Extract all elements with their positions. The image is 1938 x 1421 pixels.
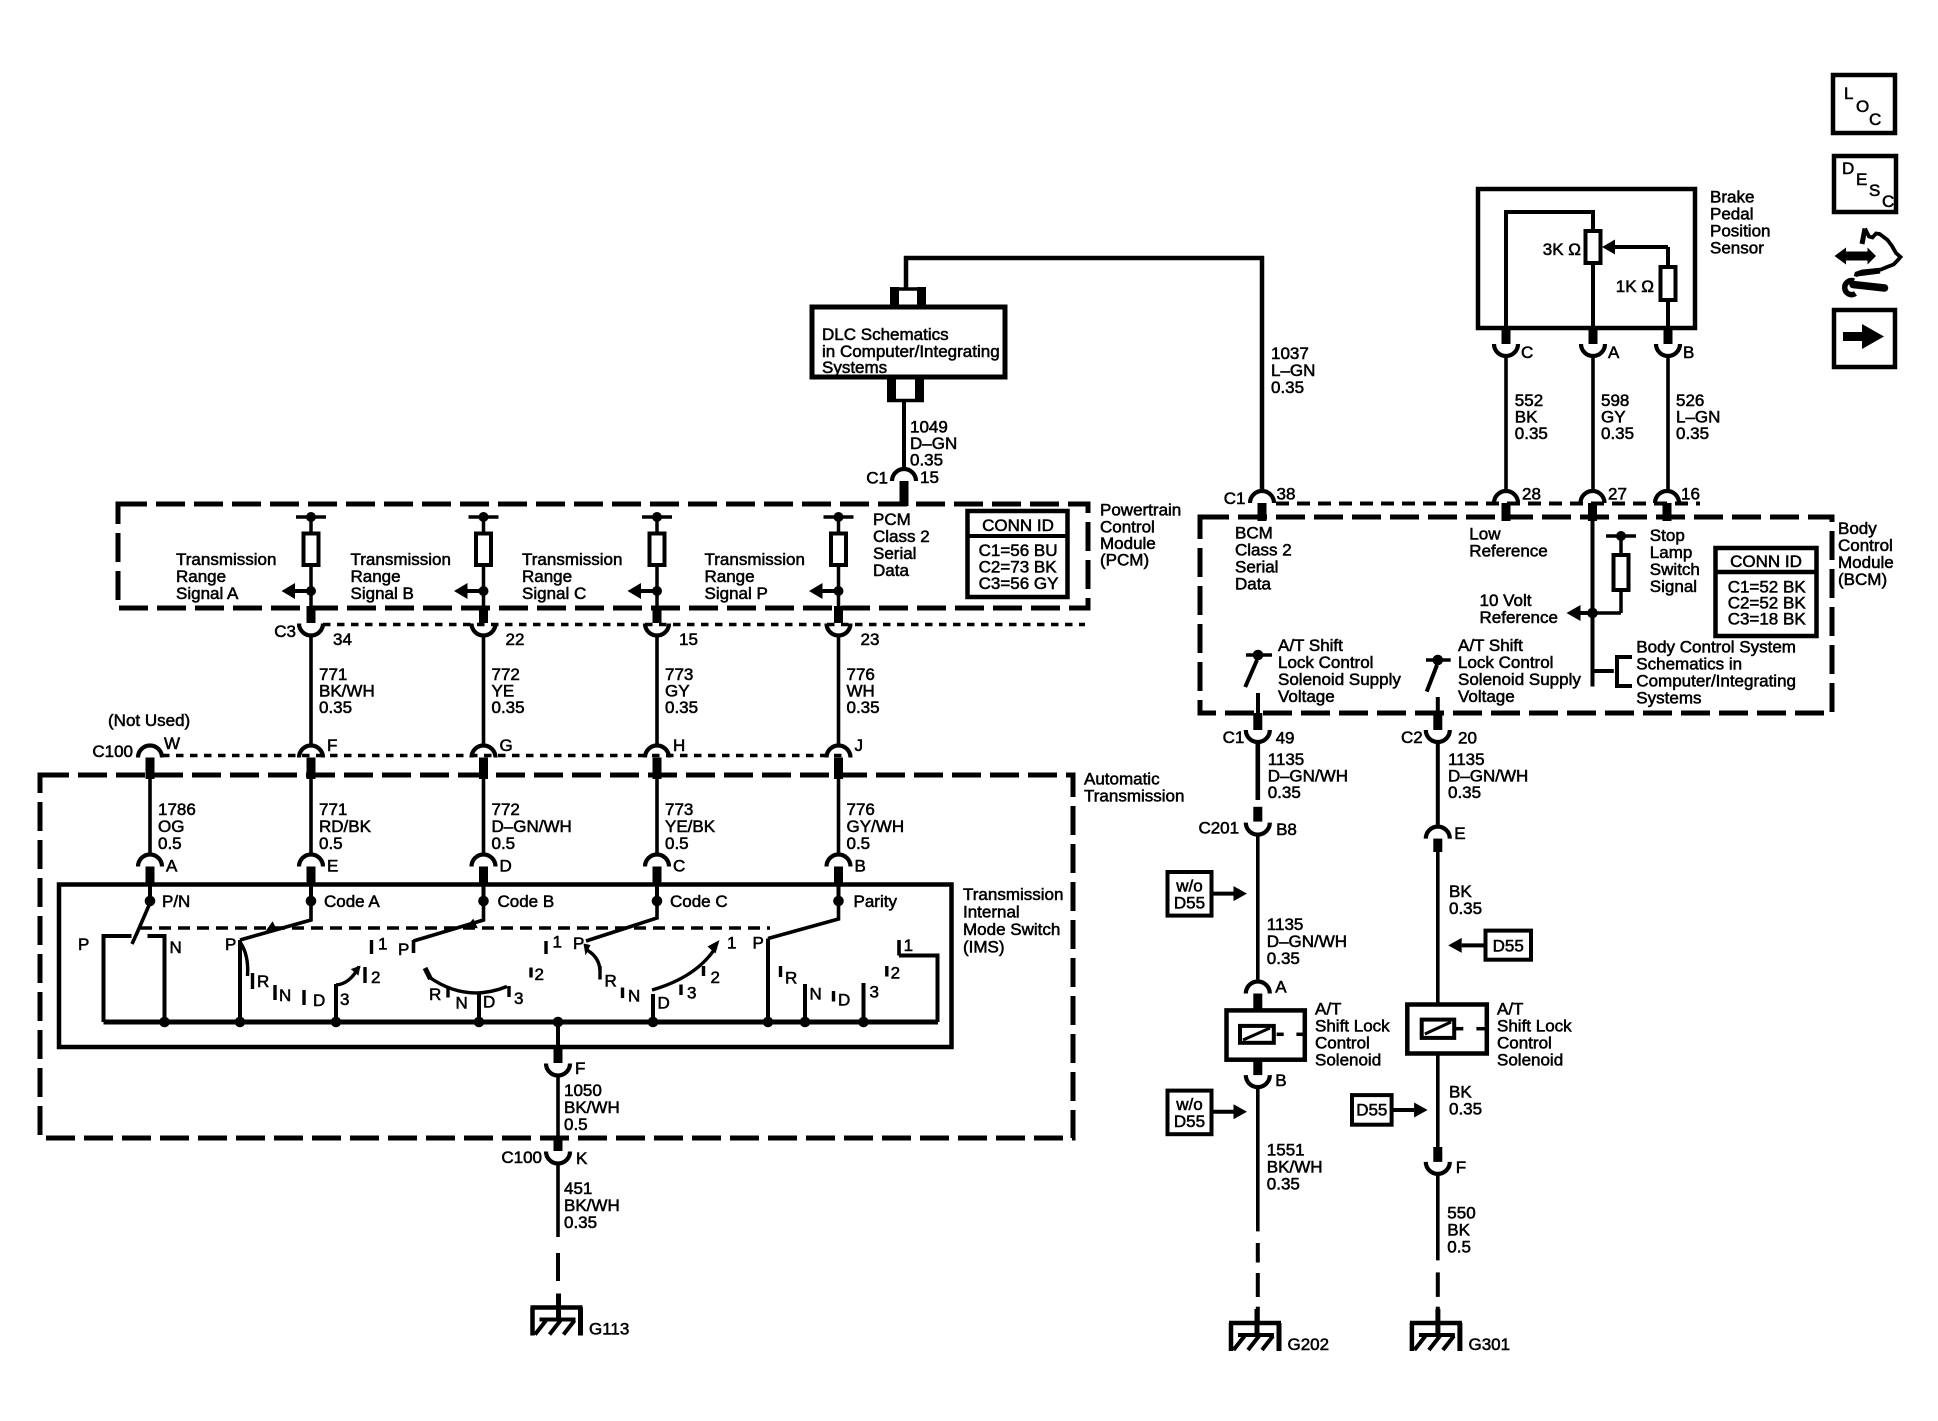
IMS bottom bus wire: [104, 1020, 939, 1025]
svg-text:28: 28: [1522, 485, 1541, 504]
connector C100 pin K: [554, 1140, 563, 1151]
connector C1 pin 15 (PCM): [892, 469, 916, 481]
svg-text:J: J: [855, 736, 864, 755]
sensor internal wire B-leg: [1666, 300, 1670, 328]
svg-text:3: 3: [687, 984, 696, 1003]
svg-text:N: N: [456, 994, 468, 1013]
IMS switch Code C: curve toward R: [587, 950, 600, 970]
IMS switch Code B: movable arm: [414, 902, 484, 941]
wire circuit 550 BK 0.5: [1436, 1174, 1440, 1260]
potentiometer 3K ohm: [1586, 231, 1601, 263]
svg-text:N: N: [810, 985, 822, 1004]
svg-text:K: K: [576, 1149, 588, 1168]
svg-text:0.35: 0.35: [665, 698, 698, 717]
svg-text:Data: Data: [873, 561, 909, 580]
svg-text:38: 38: [1277, 485, 1296, 504]
connector pin 27 (BCM): [1581, 491, 1605, 503]
IMS switch Code A: contact 3 to bus with wiper arc: [334, 984, 338, 1022]
svg-text:Transmission: Transmission: [1084, 787, 1184, 806]
resistor 1K ohm: [1661, 267, 1676, 300]
svg-text:Reference: Reference: [1469, 542, 1547, 561]
connector C3 pin 22: [479, 606, 488, 623]
svg-text:P: P: [78, 935, 89, 954]
svg-text:0.5: 0.5: [158, 834, 182, 853]
svg-text:0.35: 0.35: [1268, 783, 1301, 802]
signal arrow for Transmission Range Signal C: [652, 586, 662, 596]
svg-text:16: 16: [1681, 485, 1700, 504]
connector pin D (IMS): [472, 855, 496, 867]
svg-text:A: A: [166, 857, 178, 876]
wire circuit 776 WH: [837, 636, 841, 746]
wire dashed to ground G301: [1436, 1272, 1440, 1297]
connector C100 pin J: [827, 746, 851, 758]
svg-text:H: H: [673, 736, 685, 755]
BCM internal wire from pin 27: [1591, 521, 1595, 671]
sensor internal wire C-leg: [1506, 212, 1593, 328]
svg-text:0.35: 0.35: [1676, 424, 1709, 443]
IMS switch Code B: D contact to bus: [477, 994, 481, 1022]
IMS mechanical linkage dashed line: [140, 926, 770, 930]
svg-text:D: D: [838, 991, 850, 1010]
callout w/o D55 (upper left): [1168, 872, 1212, 916]
svg-text:Sensor: Sensor: [1710, 239, 1764, 258]
svg-text:0.35: 0.35: [1601, 424, 1634, 443]
IMS switch Code A: movable arm: [240, 902, 311, 940]
svg-text:C3=18 BK: C3=18 BK: [1728, 610, 1807, 629]
svg-text:Voltage: Voltage: [1458, 687, 1515, 706]
svg-text:C1: C1: [1223, 728, 1245, 747]
connector pin A (sensor): [1589, 328, 1598, 344]
svg-text:O: O: [1856, 97, 1869, 116]
svg-text:20: 20: [1458, 729, 1477, 748]
svg-text:N: N: [628, 987, 640, 1006]
top-right icon: DESC legend box: [1834, 156, 1896, 212]
IMS switch Code C: wiper arc with arrow toward 1: [652, 947, 716, 990]
IMS switch Parity: N contact to bus: [803, 984, 807, 1022]
svg-text:1K Ω: 1K Ω: [1616, 277, 1654, 296]
connector C3 pin 34: [307, 606, 316, 623]
dotted connector line C3: [323, 623, 1085, 627]
IMS switch Code B: ticks 3 2 1: [507, 986, 510, 997]
svg-text:1: 1: [378, 935, 387, 954]
svg-text:D55: D55: [1493, 937, 1524, 956]
wire circuit 1551 BK/WH 0.35: [1256, 1088, 1260, 1232]
svg-text:C100: C100: [501, 1148, 542, 1167]
BCM dashed module box: [1200, 517, 1832, 713]
svg-text:D55: D55: [1174, 894, 1205, 913]
svg-text:0.5: 0.5: [492, 834, 516, 853]
IMS switch Code B: input node: [482, 886, 486, 901]
svg-text:(Not Used): (Not Used): [108, 711, 190, 730]
svg-text:E: E: [1856, 170, 1867, 189]
svg-text:(PCM): (PCM): [1100, 551, 1149, 570]
svg-text:B: B: [1275, 1071, 1286, 1090]
svg-text:0.35: 0.35: [319, 698, 352, 717]
PCM internal pull-up resistor for Transmission Range Signal P: [824, 515, 854, 519]
IMS switch Code A: pivot contact to bus: [238, 940, 242, 1022]
IMS switch P/N: movable arm: [132, 903, 150, 944]
svg-text:P: P: [573, 934, 584, 953]
ground G202: [1229, 1321, 1281, 1326]
wire circuit 526 L-GN 0.35: [1666, 357, 1670, 493]
svg-text:15: 15: [920, 468, 939, 487]
Transmission Internal Mode Switch (IMS) box: [59, 885, 952, 1048]
svg-text:R: R: [429, 985, 441, 1004]
svg-text:C: C: [1882, 192, 1894, 211]
wire circuit 773 GY: [655, 636, 659, 746]
connector pin F (solenoid 2): [1433, 1147, 1442, 1162]
wire circuit 776 GY/WH (inside transmission): [837, 779, 841, 855]
connector pin E (IMS): [299, 855, 323, 867]
svg-text:2: 2: [891, 964, 900, 983]
svg-text:A: A: [1608, 343, 1620, 362]
svg-text:3: 3: [340, 990, 349, 1009]
svg-text:23: 23: [861, 630, 880, 649]
wire label BK 0.35 (above solenoid 2): [1436, 852, 1440, 1005]
connector C3 pin 15: [653, 606, 662, 623]
wire circuit 1135 D-GN/WH 0.35 (upper): [1256, 743, 1261, 801]
IMS switch Parity: P contact to bus: [766, 939, 770, 1023]
svg-text:Systems: Systems: [1636, 689, 1701, 708]
A/T shift lock control solenoid 2: [1407, 1005, 1487, 1054]
IMS switch Code C: ticks 2 3: [702, 966, 705, 976]
svg-text:D: D: [658, 994, 670, 1013]
svg-text:34: 34: [333, 630, 352, 649]
reference to Body Control System Schematics (bracket): [1591, 671, 1595, 687]
svg-text:R: R: [785, 969, 797, 988]
IMS switch Parity: input node: [837, 886, 841, 901]
svg-text:D: D: [313, 991, 325, 1010]
wire circuit 773 YE/BK (inside transmission): [655, 779, 659, 855]
svg-text:F: F: [575, 1059, 585, 1078]
svg-text:C: C: [673, 857, 685, 876]
wire circuit 772 D–GN/WH (inside transmission): [482, 779, 486, 855]
callout D55 (lower left of branch 2): [1352, 1095, 1392, 1125]
svg-text:0.35: 0.35: [1267, 1175, 1300, 1194]
svg-text:C: C: [1869, 110, 1881, 129]
svg-text:F: F: [1456, 1158, 1466, 1177]
svg-text:P: P: [398, 940, 409, 959]
BCM internal pull-up resistor (stop lamp): [1606, 534, 1636, 538]
svg-text:W: W: [164, 734, 180, 753]
svg-text:0.5: 0.5: [665, 834, 689, 853]
signal arrow for Transmission Range Signal B: [479, 586, 489, 596]
svg-text:0.35: 0.35: [564, 1213, 597, 1232]
svg-text:0.35: 0.35: [492, 698, 525, 717]
svg-text:F: F: [327, 736, 337, 755]
top-right icon: component-view symbol (part outline, double arrow, wrench): [1835, 248, 1877, 265]
connector C100 pin W (not used): [138, 746, 162, 758]
svg-text:C2: C2: [1401, 728, 1423, 747]
svg-text:C: C: [1521, 343, 1533, 362]
IMS switch Parity: tick 2: [885, 966, 888, 977]
svg-text:Code C: Code C: [670, 892, 728, 911]
PCM dashed module box: [118, 504, 1088, 608]
connector pin C (IMS): [645, 855, 669, 867]
svg-text:C1: C1: [1224, 489, 1246, 508]
IMS switch P/N: P contact: [104, 936, 132, 1022]
IMS switch Code C: ticks R N: [598, 966, 601, 980]
svg-text:B: B: [1683, 343, 1694, 362]
IMS switch Code B: pivot tick: [412, 940, 416, 953]
svg-text:Internal: Internal: [963, 903, 1020, 922]
signal arrow for Transmission Range Signal P: [834, 586, 844, 596]
connector pin B (solenoid 1): [1253, 1060, 1262, 1075]
PCM CONN ID table: [968, 511, 1068, 597]
svg-text:Parity: Parity: [854, 892, 898, 911]
IMS switch Code A: input node: [309, 886, 313, 901]
svg-text:D: D: [1842, 159, 1854, 178]
svg-text:Mode Switch: Mode Switch: [963, 920, 1060, 939]
svg-text:R: R: [257, 972, 269, 991]
connector C100 pin H: [645, 746, 669, 758]
wire circuit 1135 D-GN/WH 0.35 (right): [1436, 743, 1440, 827]
svg-text:0.35: 0.35: [1449, 899, 1482, 918]
IMS switch Code C: input node: [655, 886, 659, 901]
svg-text:Transmission: Transmission: [963, 885, 1063, 904]
svg-text:Systems: Systems: [822, 358, 887, 377]
connector C201 pin B8: [1253, 807, 1262, 822]
IMS switch Parity: tick R: [779, 966, 782, 977]
svg-text:Reference: Reference: [1480, 608, 1558, 627]
svg-text:Signal B: Signal B: [351, 584, 414, 603]
IMS switch Parity: tick D: [832, 991, 835, 1002]
svg-text:G: G: [500, 736, 513, 755]
svg-text:0.35: 0.35: [1267, 949, 1300, 968]
dotted connector line C100: [162, 754, 846, 758]
callout D55 (right): [1486, 931, 1532, 960]
svg-text:C3: C3: [274, 622, 296, 641]
top-right icon: LOC legend box: [1833, 75, 1895, 133]
svg-text:0.5: 0.5: [1447, 1238, 1471, 1257]
svg-text:N: N: [170, 938, 182, 957]
connector bracket above DLC box: [890, 287, 926, 291]
connector pin A (solenoid 1): [1246, 982, 1270, 994]
wire circuit 552 BK 0.35: [1504, 357, 1508, 493]
svg-text:E: E: [1454, 824, 1465, 843]
svg-text:C201: C201: [1198, 819, 1239, 838]
svg-text:Signal A: Signal A: [176, 584, 239, 603]
IMS switch Parity: movable arm: [768, 902, 839, 939]
svg-text:1: 1: [904, 936, 913, 955]
A/T shift lock switch 2 (BCM internal): [1426, 658, 1451, 662]
wire dashed to ground G113: [556, 1253, 560, 1281]
svg-text:(IMS): (IMS): [963, 938, 1005, 957]
wire dashed to ground G202: [1256, 1243, 1260, 1263]
svg-text:A: A: [1275, 978, 1287, 997]
svg-text:0.35: 0.35: [1271, 378, 1304, 397]
wire circuit 1786 OG (inside transmission): [148, 779, 152, 855]
svg-text:R: R: [605, 972, 617, 991]
svg-text:2: 2: [371, 968, 380, 987]
svg-text:(BCM): (BCM): [1838, 570, 1887, 589]
sensor internal wire A-leg: [1591, 263, 1595, 328]
svg-text:0.5: 0.5: [564, 1115, 588, 1134]
IMS switch Code A: position ticks R N D: [251, 973, 254, 989]
svg-text:3: 3: [514, 989, 523, 1008]
connector C2 pin 20: [1433, 713, 1442, 730]
BCM CONN ID table: [1716, 548, 1817, 636]
svg-text:G301: G301: [1469, 1335, 1511, 1354]
wire circuit 598 GY 0.35: [1591, 357, 1595, 493]
connector pin E (solenoid 2): [1426, 827, 1450, 839]
connector pin B (IMS): [827, 855, 851, 867]
svg-text:Code A: Code A: [324, 892, 380, 911]
IMS switch Code C: D contact to bus: [651, 994, 655, 1022]
svg-text:15: 15: [679, 630, 698, 649]
svg-text:S: S: [1869, 181, 1880, 200]
PCM internal pull-up resistor for Transmission Range Signal B: [469, 515, 499, 519]
svg-text:0.35: 0.35: [1448, 783, 1481, 802]
PCM internal pull-up resistor for Transmission Range Signal C: [642, 515, 672, 519]
IMS switch Parity: contact 1 wired to bus: [897, 940, 901, 956]
connector pin 28 (BCM): [1494, 491, 1518, 503]
wire circuit 771 BK/WH: [309, 636, 313, 746]
A/T shift lock control solenoid 1: [1253, 994, 1262, 1011]
Brake Pedal Position Sensor box: [1478, 189, 1695, 328]
svg-text:C1: C1: [866, 469, 888, 488]
connector C100 pin G: [472, 746, 496, 758]
svg-text:0.5: 0.5: [319, 834, 343, 853]
svg-text:3K Ω: 3K Ω: [1543, 240, 1581, 259]
PCM internal pull-up resistor for Transmission Range Signal A: [296, 515, 326, 519]
svg-text:L: L: [1844, 84, 1853, 103]
wire: DLC to BCM C1-38 (class 2 serial data): [906, 258, 1262, 492]
potentiometer wiper arrow: [1602, 240, 1615, 255]
svg-text:0.35: 0.35: [1449, 1100, 1482, 1119]
svg-text:Code B: Code B: [498, 892, 555, 911]
svg-text:B8: B8: [1276, 820, 1297, 839]
IMS switch Code A: position ticks 2 and 1: [363, 967, 366, 983]
svg-text:Solenoid: Solenoid: [1497, 1051, 1563, 1070]
svg-text:C100: C100: [92, 742, 133, 761]
top-right icon: next-page arrow box: [1834, 310, 1895, 367]
wire label BK 0.35 (below solenoid 2): [1436, 1054, 1440, 1148]
connector pin A (IMS): [138, 855, 162, 867]
IMS switch Code B: wiper arc: [425, 968, 431, 979]
connector pin 16 (BCM): [1655, 491, 1679, 503]
connector pin C (sensor): [1502, 328, 1511, 344]
svg-text:Signal C: Signal C: [522, 584, 586, 603]
Automatic Transmission dashed box: [40, 775, 1073, 1138]
IMS switch Parity: contact 3 to bus: [862, 983, 866, 1022]
dotted connector line C1 (BCM top): [1276, 502, 1700, 506]
connector C1 pin 38 (BCM): [1250, 491, 1274, 503]
wire: IMS bus to pin F: [556, 1022, 560, 1046]
IMS switch P/N: N contact: [148, 936, 165, 1022]
signal arrow for Transmission Range Signal A: [306, 586, 316, 596]
svg-text:D55: D55: [1356, 1101, 1387, 1120]
svg-text:2: 2: [711, 968, 720, 987]
wire label 1050 BK/WH 0.5: [556, 1076, 560, 1139]
svg-text:Signal P: Signal P: [705, 584, 768, 603]
connector pin B (sensor): [1664, 328, 1673, 344]
svg-text:C3=56 GY: C3=56 GY: [979, 574, 1059, 593]
wire label 451 BK/WH 0.35: [556, 1164, 560, 1237]
ground G113: [531, 1305, 583, 1310]
A/T shift lock switch 1 (BCM internal): [1246, 653, 1272, 657]
svg-text:1: 1: [727, 934, 736, 953]
10 Volt Reference arrow: [1567, 605, 1581, 621]
svg-text:Solenoid: Solenoid: [1315, 1051, 1381, 1070]
svg-text:0.5: 0.5: [847, 834, 871, 853]
svg-text:G113: G113: [589, 1320, 629, 1339]
svg-text:0.35: 0.35: [1515, 424, 1548, 443]
connector C3 pin 23: [834, 606, 843, 623]
connector C1 pin 49: [1253, 713, 1262, 730]
svg-text:0.35: 0.35: [847, 698, 880, 717]
svg-text:1: 1: [553, 933, 562, 952]
connector bracket below DLC box: [887, 399, 924, 403]
svg-text:27: 27: [1608, 485, 1627, 504]
wire circuit 1135 D-GN/WH 0.35 (lower): [1256, 835, 1260, 982]
svg-text:49: 49: [1276, 729, 1295, 748]
DLC Schematics callout box: [812, 307, 1005, 377]
svg-text:Voltage: Voltage: [1278, 687, 1335, 706]
svg-text:2: 2: [535, 965, 544, 984]
svg-text:3: 3: [870, 983, 879, 1002]
svg-text:CONN ID: CONN ID: [1730, 552, 1802, 571]
callout w/o D55 (lower left): [1168, 1091, 1212, 1135]
svg-text:D: D: [483, 993, 495, 1012]
svg-text:B: B: [855, 857, 866, 876]
ground G301: [1410, 1321, 1462, 1326]
IMS switch Code C: movable arm: [586, 902, 657, 941]
connector C100 pin F: [299, 746, 323, 758]
svg-text:CONN ID: CONN ID: [982, 516, 1054, 535]
svg-text:Signal: Signal: [1650, 577, 1697, 596]
svg-text:D: D: [500, 857, 512, 876]
svg-text:Data: Data: [1235, 575, 1271, 594]
svg-text:0.35: 0.35: [910, 451, 943, 470]
IMS switch P/N: input node and wire: [148, 886, 152, 901]
svg-text:P: P: [225, 935, 236, 954]
svg-text:N: N: [279, 986, 291, 1005]
svg-text:G202: G202: [1288, 1335, 1330, 1354]
wire circuit 771 RD/BK (inside transmission): [309, 779, 313, 855]
connector pin F (IMS output): [554, 1048, 563, 1063]
wire circuit 772 YE: [482, 636, 486, 746]
svg-text:22: 22: [506, 630, 525, 649]
svg-text:P: P: [753, 934, 764, 953]
svg-text:P/N: P/N: [162, 892, 190, 911]
svg-text:E: E: [327, 857, 338, 876]
svg-text:D55: D55: [1174, 1112, 1205, 1131]
